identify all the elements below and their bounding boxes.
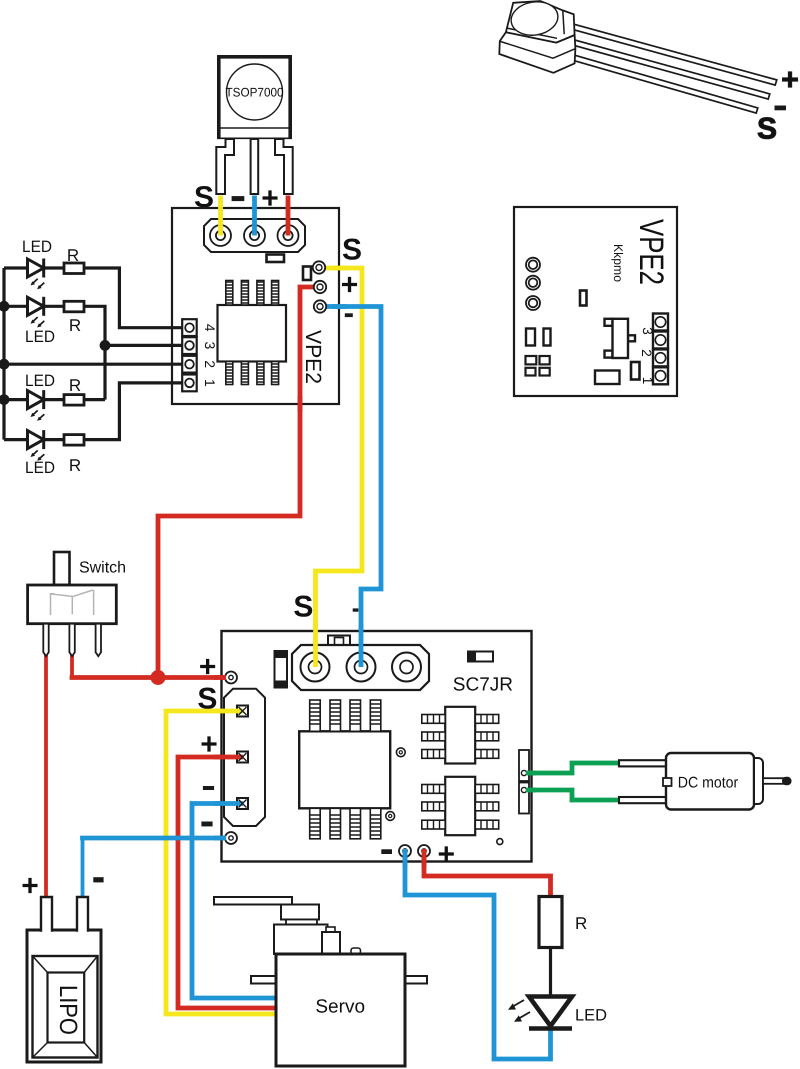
wire blue SC7JR - pad to servo (192, 804, 276, 999)
tab - (77, 897, 88, 932)
wire row2 (4, 305, 28, 308)
servo body (276, 954, 405, 1066)
label - top (353, 608, 359, 611)
svg-text:S: S (757, 113, 777, 146)
SOIC U4 (445, 777, 475, 835)
label - bottom (381, 849, 392, 854)
wire yellow VPE2 S pad to SC7JR hole1 (316, 268, 363, 627)
svg-text:+: + (261, 182, 279, 215)
wire row3 (4, 398, 28, 401)
IR housing edge line (563, 10, 564, 34)
label - (93, 877, 103, 882)
label - (345, 313, 353, 317)
hole 1 (301, 653, 330, 682)
LED D4 (28, 430, 44, 449)
servo horn bar (214, 897, 292, 905)
svg-text:Switch: Switch (79, 560, 126, 577)
wire yellow over VPE2 right edge (332, 266, 346, 271)
via b (386, 812, 395, 821)
pad S (X) (237, 706, 248, 717)
svg-text:LED: LED (575, 1007, 607, 1025)
wire green motor lead 2 (524, 790, 621, 800)
hole 3 (392, 653, 421, 682)
resistor R (539, 897, 562, 948)
wire yellow into S pad (214, 709, 243, 714)
svg-text:LED: LED (25, 372, 55, 390)
leg + (571, 24, 777, 85)
wire red SC7JR bottom + pad to resistor R (424, 860, 551, 898)
wire blue into - pad (214, 801, 243, 806)
LED D2 (28, 297, 44, 316)
node bus-row3 (0, 396, 8, 404)
svg-text:SC7JR: SC7JR (453, 675, 513, 696)
IR base top edge line (501, 42, 576, 59)
SMD pad grid 2x2 (526, 356, 550, 376)
small pad below connector (267, 255, 285, 263)
pad - (314, 300, 326, 312)
svg-text:S: S (342, 234, 362, 267)
VPE2 board outline (172, 208, 339, 404)
LED D3 (28, 390, 44, 409)
servo ear right (405, 976, 427, 984)
svg-text:R: R (67, 246, 79, 265)
svg-text:S: S (293, 591, 313, 624)
wire row2-3 to pin3 (105, 344, 183, 347)
svg-text:Servo: Servo (315, 997, 365, 1018)
ring pad - bottom left (225, 832, 237, 844)
svg-text:LED: LED (25, 459, 55, 477)
svg-text:+: + (341, 269, 359, 302)
big IC U2 body (299, 731, 390, 808)
svg-text:1: 1 (640, 377, 655, 385)
node bus-row2 (0, 303, 8, 311)
3D frame outer (33, 956, 98, 1058)
label - (775, 106, 786, 110)
svg-text:R: R (575, 914, 587, 933)
svg-text:VPE2: VPE2 (632, 219, 670, 285)
svg-text:3: 3 (202, 342, 218, 350)
motor lead 2 (619, 797, 667, 803)
servo ear left (251, 976, 276, 984)
bottom pad - (399, 845, 411, 857)
SMD part horizontal (595, 371, 620, 385)
servo gear housing (274, 925, 328, 955)
pad + (X) (237, 752, 248, 763)
wire green over SC7JR right edge 1 (526, 771, 536, 776)
servo bump (351, 948, 361, 954)
SMD cap top right (468, 652, 493, 662)
LED labels (22, 238, 81, 477)
transistor Q1 (605, 319, 636, 358)
SOIC U3 (445, 707, 475, 764)
LED D1 (28, 259, 44, 278)
wire yellow SC7JR S pad to servo (166, 711, 276, 1014)
svg-text:S: S (197, 683, 217, 716)
label - (232, 196, 245, 201)
svg-text:2: 2 (639, 349, 654, 357)
leg - (569, 39, 770, 99)
SMD resistor center (580, 291, 587, 306)
battery body (27, 930, 101, 1062)
svg-text:+: + (781, 64, 799, 97)
bottom pad + (418, 845, 430, 857)
wire stub yellow into hole1 (313, 625, 318, 668)
svg-text:VPE2: VPE2 (301, 330, 326, 384)
svg-text:1: 1 (202, 379, 218, 387)
wire blue over SC7JR left edge to - ring pad (214, 836, 226, 841)
svg-text:TSOP7000: TSOP7000 (226, 86, 284, 100)
wire green motor lead 1 (524, 763, 621, 773)
hole 2 (347, 653, 376, 682)
connector notch (328, 636, 350, 646)
wire red over SC7JR left edge to + pad (214, 675, 226, 680)
svg-text:+: + (199, 651, 217, 684)
TSOP lens circle (227, 64, 283, 120)
label - left (203, 786, 214, 790)
wire resistor to LED (549, 948, 552, 997)
svg-text:LIPO: LIPO (54, 985, 82, 1035)
motor end cap (754, 758, 763, 804)
switch leg 1 (43, 624, 48, 657)
wire row4 (4, 438, 28, 441)
switch mechanism (50, 590, 94, 615)
servo shaft (286, 920, 317, 925)
fuse component (275, 651, 288, 688)
servo horn hub (281, 905, 319, 920)
wire blue LIPO - to SC7JR bottom-left - pad (81, 838, 85, 899)
3-pin header (653, 314, 668, 385)
pad - (X) (237, 798, 248, 809)
LED D5 (529, 997, 572, 1029)
via a (396, 748, 405, 757)
wire red switch mid leg to junction to SC7JR + pad (70, 650, 74, 676)
TSOP leg 1 (S) (216, 139, 234, 194)
motor shaft (763, 778, 785, 784)
svg-text:+: + (200, 728, 218, 761)
via 1 (526, 258, 540, 272)
3D frame inner (48, 973, 85, 1043)
switch leg 3 (96, 624, 101, 657)
TSOP leg 2 (-) (251, 139, 259, 194)
wire row1 (4, 266, 28, 269)
junction dot red (151, 670, 166, 685)
svg-text:+: + (438, 838, 456, 871)
svg-text:R: R (69, 316, 81, 335)
LED arrows (508, 1000, 530, 1022)
wire red over SC7JR bottom edge (422, 849, 427, 868)
switch body (28, 585, 117, 624)
wire blue over SC7JR bottom edge (403, 849, 408, 868)
leg S (565, 53, 758, 113)
wire bus vertical (2, 268, 5, 440)
servo pot (322, 932, 340, 954)
TSOP body (219, 57, 290, 139)
resistor R1 (64, 263, 84, 274)
SMD pads left pair (526, 329, 535, 346)
wire red switch left leg to LIPO + (44, 650, 48, 899)
svg-text:LED: LED (22, 238, 52, 256)
svg-text:LED: LED (25, 328, 55, 346)
wire red over VPE2 bottom edge (298, 396, 303, 412)
servo pot cap (326, 927, 335, 932)
via 3 (526, 296, 540, 310)
switch leg 2 (69, 624, 74, 657)
svg-text:4: 4 (202, 324, 218, 332)
3-hole connector (204, 219, 305, 252)
motor tab (663, 778, 672, 786)
motor body (666, 753, 754, 810)
wire blue over VPE2 right edge (332, 304, 346, 309)
IR lens (509, 0, 561, 38)
via 2 (526, 276, 540, 290)
IC U1 pins top (226, 281, 279, 306)
tab + (41, 897, 52, 932)
node bus-pin2 (0, 360, 8, 368)
board outline (514, 207, 677, 396)
IR body base (499, 32, 575, 73)
resistor R4 (64, 435, 84, 446)
big IC pins top (310, 700, 381, 731)
wire red SC7JR + pad to servo (178, 757, 276, 1008)
svg-text:2: 2 (202, 360, 218, 368)
label - left2 (201, 822, 212, 827)
ring pad + (225, 672, 237, 684)
LED symbols and resistors (28, 259, 85, 461)
resistor R3 (64, 395, 84, 406)
small hole bottom right (497, 839, 503, 845)
IR body top housing (506, 1, 575, 43)
right connector (519, 750, 529, 781)
board outline (222, 631, 532, 862)
big IC pins bottom (310, 808, 381, 839)
svg-text:DC motor: DC motor (678, 775, 739, 792)
node row2-3 junction (101, 342, 109, 350)
left connector (224, 689, 265, 826)
hole 2 (244, 225, 265, 246)
IC U1 pins bottom (226, 362, 279, 385)
wire blue SC7JR bottom - pad to LED cathode (405, 860, 551, 1059)
wire stub blue into hole2 (359, 625, 364, 668)
SMD part vertical (631, 362, 640, 380)
hole 3 (278, 225, 299, 246)
wire red VPE2 + pad to junction (158, 287, 318, 678)
wire green over SC7JR right edge 2 (526, 788, 536, 793)
4-pin header (182, 319, 197, 391)
svg-text:+: + (21, 870, 39, 903)
IR housing bottom band (507, 28, 558, 38)
wire pin2 common (4, 363, 183, 366)
wire blue VPE2 - pad to SC7JR hole2 (322, 307, 381, 628)
wire stub blue into hole2 (252, 196, 257, 236)
resistor R2 (64, 301, 84, 312)
small part near S pad (303, 267, 311, 281)
pad + (314, 281, 326, 293)
wire stub yellow into hole1 (218, 196, 223, 236)
motor lead 1 (619, 760, 667, 766)
hole 1 (210, 225, 231, 246)
switch knob (54, 552, 70, 585)
wire red into + pad (214, 755, 243, 760)
3D frame diagonals (33, 956, 98, 1058)
svg-text:Kkpmo: Kkpmo (611, 244, 625, 282)
svg-text:R: R (69, 376, 81, 395)
svg-text:3: 3 (640, 327, 655, 335)
TSOP leg 3 (+) (275, 139, 293, 194)
pad S (313, 261, 325, 273)
3-hole connector (292, 645, 429, 690)
wire stub red into hole3 (286, 196, 291, 236)
svg-text:R: R (69, 456, 81, 475)
IC U1 body (218, 305, 287, 362)
